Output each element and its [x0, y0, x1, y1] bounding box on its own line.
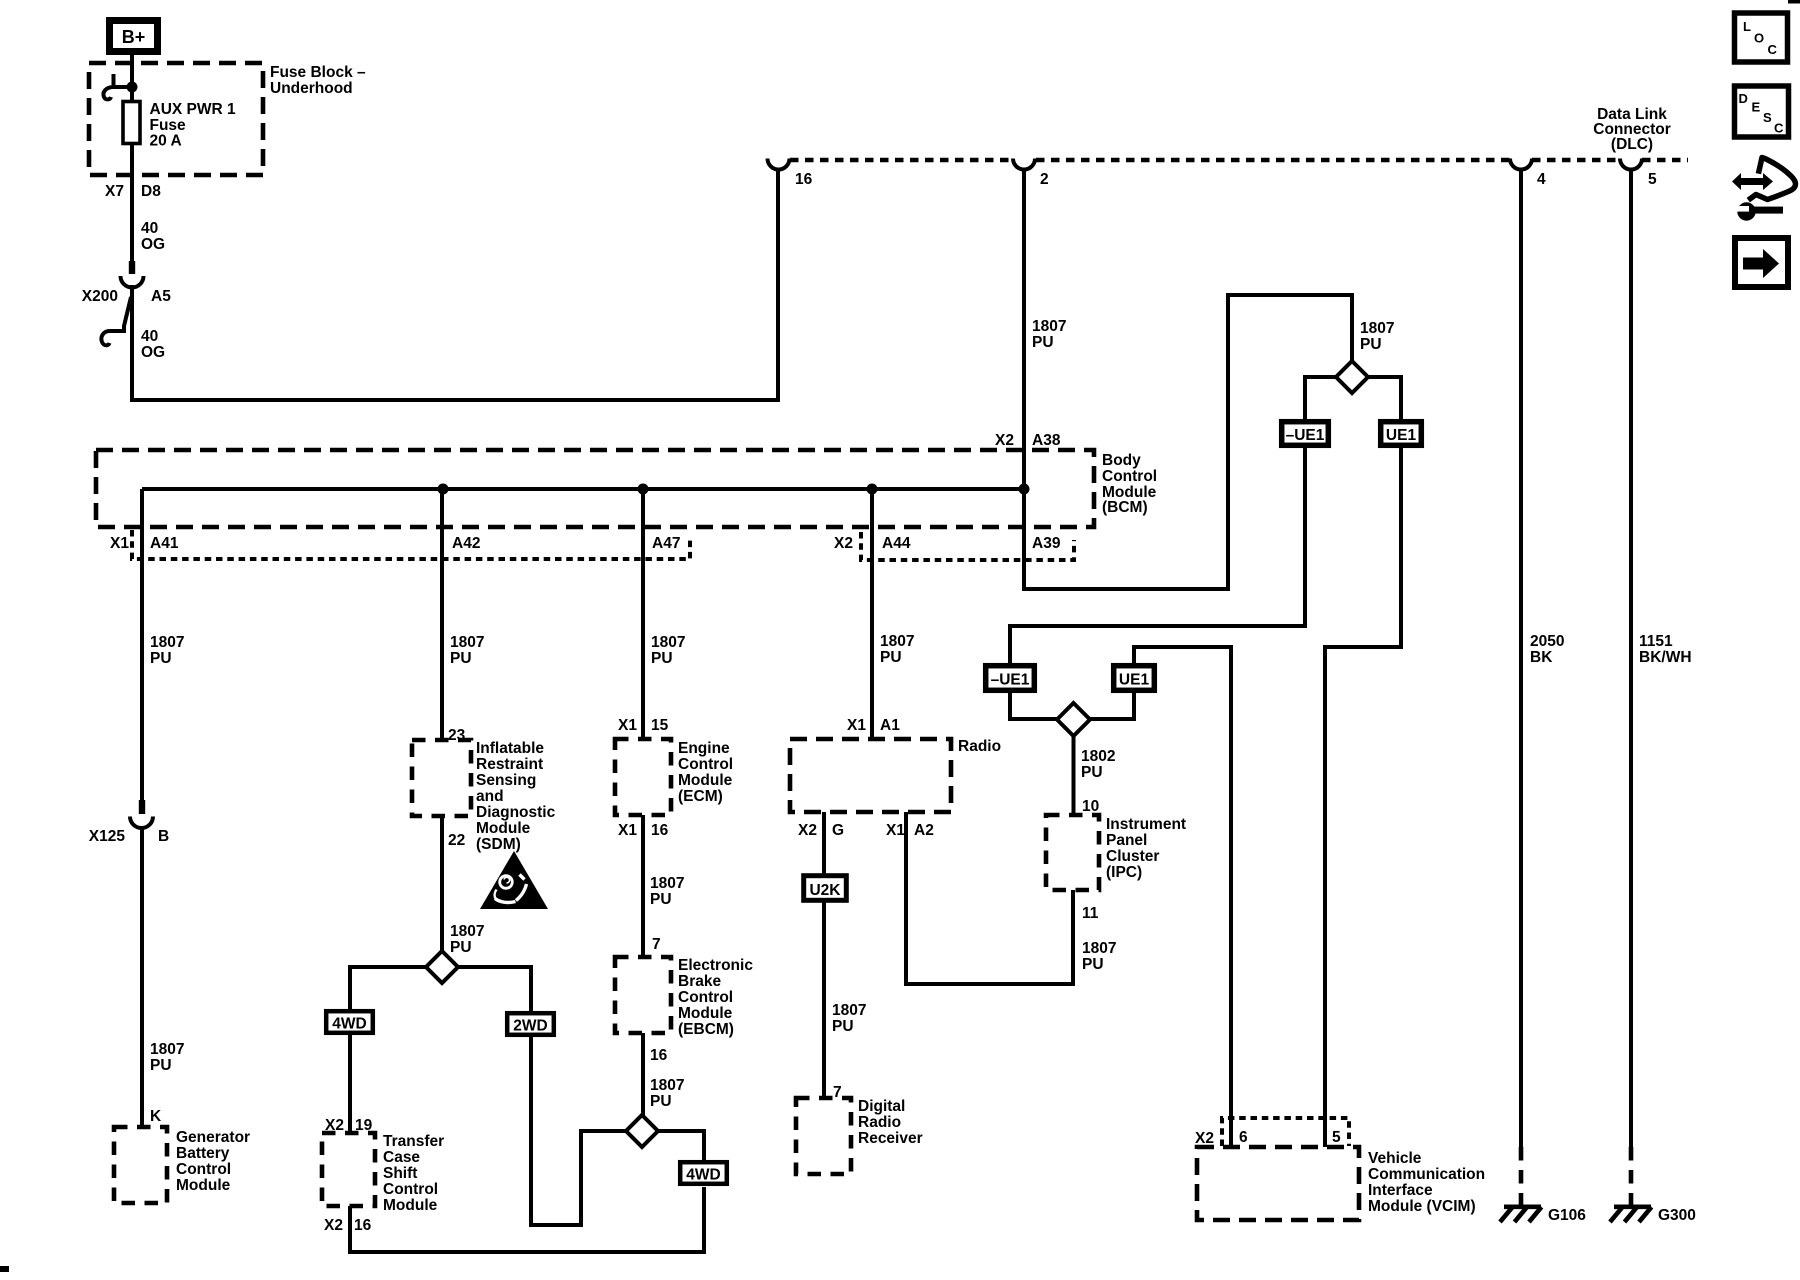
pin labels X1 A2 [886, 822, 934, 839]
svg-text:Instrument: Instrument [1106, 816, 1186, 833]
svg-text:16: 16 [650, 1047, 668, 1064]
svg-text:AUX PWR 1: AUX PWR 1 [150, 101, 237, 118]
svg-text:O: O [1754, 31, 1764, 46]
svg-text:X125: X125 [89, 828, 126, 845]
svg-text:and: and [476, 788, 504, 805]
label Data Link Connector (DLC) [1593, 106, 1671, 153]
svg-text:Transfer: Transfer [383, 1133, 444, 1150]
svg-text:X2: X2 [834, 535, 853, 552]
net tag UE1 lower [1114, 666, 1155, 691]
junction A47 [638, 484, 649, 495]
svg-text:20 A: 20 A [150, 133, 182, 150]
radio (dashed box) [790, 739, 951, 812]
splice diamond S4 [1057, 703, 1090, 736]
svg-text:Body: Body [1102, 452, 1141, 469]
svg-text:1807: 1807 [1032, 318, 1066, 335]
page corner mark top right [1788, 0, 1800, 4]
splice diamond S1 [426, 951, 458, 983]
svg-text:Shift: Shift [383, 1165, 417, 1182]
body control module BCM (dashed box) [96, 450, 1094, 527]
svg-text:OG: OG [141, 236, 165, 253]
svg-text:X1: X1 [886, 822, 905, 839]
svg-text:1807: 1807 [1360, 320, 1394, 337]
svg-text:Module: Module [678, 1005, 733, 1022]
4WD box 2 [680, 1162, 727, 1184]
svg-text:PU: PU [832, 1018, 854, 1035]
svg-text:Interface: Interface [1368, 1182, 1433, 1199]
svg-text:4: 4 [1537, 171, 1546, 188]
wire radio G to U2K [822, 812, 826, 875]
svg-text:1807: 1807 [150, 1041, 184, 1058]
wire label 40 OG [141, 220, 165, 253]
svg-text:G: G [832, 822, 844, 839]
svg-text:1807: 1807 [880, 633, 914, 650]
svg-text:Module: Module [678, 772, 733, 789]
pin labels X2 16 [324, 1217, 372, 1234]
svg-text:5: 5 [1648, 171, 1657, 188]
wire label 1807 PU [1082, 940, 1116, 973]
svg-text:Radio: Radio [958, 738, 1001, 755]
svg-text:PU: PU [1081, 764, 1103, 781]
svg-text:(DLC): (DLC) [1611, 136, 1653, 153]
svg-text:B+: B+ [122, 27, 146, 47]
wire label 1807 PU [450, 923, 484, 956]
svg-text:C: C [1768, 42, 1778, 57]
svg-text:A42: A42 [452, 535, 480, 552]
svg-text:G106: G106 [1548, 1207, 1586, 1224]
wire X125 to generator battery control module [140, 826, 144, 1127]
svg-text:1151: 1151 [1639, 633, 1673, 650]
wire label 1807 PU [450, 634, 484, 667]
svg-text:Inflatable: Inflatable [476, 740, 544, 757]
svg-text:UE1: UE1 [1386, 427, 1417, 444]
svg-text:Battery: Battery [176, 1145, 230, 1162]
wire BCM A41 down [140, 489, 144, 801]
DLC pin 5 cup [1620, 159, 1642, 170]
svg-text:1807: 1807 [450, 634, 484, 651]
U2K box [804, 876, 847, 901]
wire splice to 4WD [350, 967, 426, 1009]
svg-text:7: 7 [652, 936, 661, 953]
svg-text:PU: PU [650, 891, 672, 908]
label Instrument Panel Cluster (IPC) [1106, 816, 1186, 881]
wire label 40 OG [141, 328, 165, 361]
junction A44 [867, 484, 878, 495]
svg-text:Control: Control [678, 989, 733, 1006]
svg-text:15: 15 [651, 717, 669, 734]
svg-text:Radio: Radio [858, 1114, 901, 1131]
svg-text:16: 16 [795, 171, 813, 188]
svg-text:X1: X1 [618, 717, 637, 734]
2WD box [507, 1013, 554, 1035]
svg-text:1807: 1807 [651, 634, 685, 651]
svg-text:Module: Module [383, 1197, 438, 1214]
svg-text:A44: A44 [882, 535, 911, 552]
BCM X2 connector outline [861, 532, 1074, 560]
svg-text:Fuse: Fuse [150, 117, 187, 134]
BCM X1 connector outline [132, 530, 690, 559]
icon LOC [1735, 13, 1788, 62]
svg-text:Restraint: Restraint [476, 756, 543, 773]
digital radio receiver (dashed box) [796, 1098, 851, 1174]
battery positive B+ [110, 21, 158, 52]
svg-text:4WD: 4WD [332, 1016, 366, 1033]
label Engine Control Module (ECM) [678, 740, 733, 805]
wire radio A2 to IPC pin 11 [906, 812, 1073, 984]
svg-text:A2: A2 [914, 822, 934, 839]
label Body Control Module (BCM) [1102, 452, 1157, 516]
label Digital Radio Receiver [858, 1098, 923, 1147]
pin labels X2 6 5 [1195, 1129, 1341, 1147]
connector X125 B [89, 800, 169, 845]
svg-text:Case: Case [383, 1149, 420, 1166]
fuse block feed hook [103, 74, 130, 99]
svg-text:Cluster: Cluster [1106, 848, 1159, 865]
svg-text:2: 2 [1040, 171, 1049, 188]
wire UE1 to VCIM pin 5 [1325, 446, 1401, 1147]
pin labels X2 A44 [834, 535, 911, 552]
wire S4 to IPC pin 10 [1072, 736, 1076, 815]
splice diamond S3 [1336, 361, 1368, 393]
svg-text:PU: PU [150, 1057, 172, 1074]
svg-text:4WD: 4WD [686, 1167, 720, 1184]
svg-text:Digital: Digital [858, 1098, 905, 1115]
wire X200 to DLC pin 16 [132, 170, 778, 400]
svg-text:Fuse Block –: Fuse Block – [270, 64, 366, 81]
svg-text:A38: A38 [1032, 432, 1061, 449]
vehicle communication interface module VCIM (dashed box) [1197, 1147, 1359, 1220]
svg-text:PU: PU [1082, 956, 1104, 973]
pin labels X1 A41 [110, 535, 179, 552]
label Generator Battery Control Module [176, 1129, 250, 1194]
svg-text:A39: A39 [1032, 535, 1061, 552]
svg-text:6: 6 [1239, 1129, 1248, 1146]
svg-text:OG: OG [141, 344, 165, 361]
page corner mark bottom left [0, 1266, 9, 1272]
pin labels X1 15 [618, 717, 669, 734]
svg-text:G300: G300 [1658, 1207, 1696, 1224]
svg-text:A41: A41 [150, 535, 179, 552]
pin X7 D8 labels [105, 183, 161, 200]
svg-text:–UE1: –UE1 [991, 672, 1030, 689]
junction A42 [438, 484, 449, 495]
svg-text:Module (VCIM): Module (VCIM) [1368, 1198, 1476, 1215]
transfer case shift control module (dashed box) [322, 1133, 375, 1206]
icon schematic nav (arrow and wrench) [1732, 158, 1796, 221]
svg-text:PU: PU [651, 650, 673, 667]
svg-text:X1: X1 [110, 535, 129, 552]
wire splice to 2WD [458, 967, 531, 1011]
DLC dotted harness line [790, 158, 1012, 162]
wire -UE1 lower to splice S4 [1010, 691, 1057, 719]
svg-text:X200: X200 [82, 288, 118, 305]
svg-text:L: L [1743, 19, 1751, 34]
pin X2 A38 labels [995, 432, 1061, 449]
label Vehicle Communication Interface Module (VCIM) [1368, 1150, 1485, 1215]
svg-text:PU: PU [880, 649, 902, 666]
svg-text:X1: X1 [618, 822, 637, 839]
VCIM X2 connector outline [1222, 1118, 1349, 1146]
svg-text:Control: Control [1102, 468, 1157, 485]
wire DLC dotted segment 4 [1642, 158, 1688, 162]
wire DLC pin 4 down [1519, 169, 1523, 1147]
svg-text:PU: PU [650, 1093, 672, 1110]
wire label 1807 PU [650, 1077, 684, 1110]
fuse block underhood (dashed box) [89, 63, 263, 175]
wire 2WD to splice S2 [531, 1035, 626, 1225]
svg-text:(ECM): (ECM) [678, 788, 723, 805]
svg-text:X2: X2 [995, 432, 1014, 449]
svg-text:A5: A5 [151, 288, 171, 305]
net tag UE1 [1381, 422, 1422, 446]
svg-text:Module: Module [476, 820, 531, 837]
wire label 1807 PU [1032, 318, 1066, 351]
wire label 1807 PU [150, 1041, 184, 1074]
svg-text:A1: A1 [880, 717, 900, 734]
label Electronic Brake Control Module (EBCM) [678, 957, 753, 1038]
svg-text:PU: PU [1032, 334, 1054, 351]
wire BCM A39 loop to splice S3 [1024, 295, 1352, 589]
svg-text:Vehicle: Vehicle [1368, 1150, 1422, 1167]
svg-text:2050: 2050 [1530, 633, 1564, 650]
svg-text:16: 16 [651, 822, 669, 839]
wire SDM pin 22 to splice [440, 816, 444, 953]
ground G300 [1610, 1207, 1652, 1222]
svg-text:11: 11 [1082, 905, 1099, 922]
svg-text:E: E [1752, 100, 1761, 115]
pin labels X1 16 [618, 822, 669, 839]
generator battery control module (dashed box) [114, 1127, 167, 1203]
dashed ground lead G106 [1519, 1147, 1524, 1206]
inflatable restraint SDM (dashed box) [412, 740, 471, 816]
junction A38/A39 [1019, 484, 1030, 495]
label Inflatable Restraint Sensing and Diagnostic Module (SDM) [476, 740, 556, 853]
icon forward arrow [1735, 238, 1788, 287]
svg-text:16: 16 [354, 1217, 372, 1234]
wire label 1807 PU [880, 633, 914, 666]
svg-text:Brake: Brake [678, 973, 721, 990]
pin labels X2 G [798, 822, 844, 839]
svg-text:Panel: Panel [1106, 832, 1147, 849]
pin labels X1 A1 [847, 717, 900, 734]
net tag -UE1 lower [986, 666, 1035, 691]
DLC pin 4 cup [1510, 159, 1532, 170]
wire transfer case pin 16 to 4WD 2 [350, 1187, 704, 1252]
svg-text:Module: Module [176, 1177, 231, 1194]
wire ECM to EBCM [641, 815, 645, 957]
svg-text:(BCM): (BCM) [1102, 499, 1148, 516]
svg-text:(IPC): (IPC) [1106, 864, 1142, 881]
svg-text:Engine: Engine [678, 740, 730, 757]
svg-text:Diagnostic: Diagnostic [476, 804, 556, 821]
wire S3 to UE1 [1368, 377, 1401, 421]
wire label 1802 PU [1081, 748, 1115, 781]
connector X200 A5 [82, 261, 171, 305]
svg-text:Sensing: Sensing [476, 772, 536, 789]
svg-text:(SDM): (SDM) [476, 836, 521, 853]
svg-text:BK/WH: BK/WH [1639, 649, 1692, 666]
wire label 1807 PU [832, 1002, 866, 1035]
wire label 2050 BK [1530, 633, 1564, 666]
wire BCM A47 to ECM [641, 489, 645, 739]
icon DESC [1735, 86, 1789, 137]
SRS airbag warning triangle [480, 851, 548, 909]
X200 pigtail hook [101, 297, 131, 345]
wire BCM A42 to SDM [440, 489, 444, 740]
svg-text:Generator: Generator [176, 1129, 250, 1146]
wire 4WD to transfer case module [348, 1033, 352, 1133]
svg-text:X1: X1 [847, 717, 866, 734]
svg-text:Control: Control [176, 1161, 231, 1178]
dashed ground lead G300 [1629, 1147, 1634, 1206]
svg-text:UE1: UE1 [1119, 672, 1150, 689]
wire label 1151 BK/WH [1639, 633, 1692, 666]
DLC pin 16 cup [768, 159, 790, 170]
wire UE1 lower to splice S4 [1090, 691, 1134, 719]
svg-text:1807: 1807 [1082, 940, 1116, 957]
svg-text:40: 40 [141, 220, 158, 237]
svg-text:X2: X2 [798, 822, 817, 839]
wire DLC dotted segment 2 [1036, 158, 1510, 162]
wire DLC pin 2 to BCM A38 [1022, 169, 1026, 489]
svg-text:PU: PU [450, 939, 472, 956]
wire -UE1 to -UE1 lower [1010, 446, 1305, 665]
svg-text:Underhood: Underhood [270, 80, 353, 97]
svg-text:1807: 1807 [650, 1077, 684, 1094]
instrument panel cluster IPC (dashed box) [1046, 815, 1099, 890]
label Transfer Case Shift Control Module [383, 1133, 444, 1214]
wire DLC pin 5 down [1629, 169, 1633, 1147]
svg-text:K: K [150, 1108, 162, 1125]
svg-text:A47: A47 [652, 535, 680, 552]
svg-text:Control: Control [678, 756, 733, 773]
wire S3 to -UE1 [1305, 377, 1336, 421]
wire 4WD 2 to splice S2 [658, 1131, 704, 1164]
DLC pin 2 cup [1013, 159, 1035, 170]
svg-text:X2: X2 [1195, 1130, 1214, 1147]
fuse AUX PWR 1 20A [123, 101, 236, 150]
svg-text:40: 40 [141, 328, 158, 345]
svg-text:BK: BK [1530, 649, 1553, 666]
svg-text:Receiver: Receiver [858, 1130, 923, 1147]
svg-text:B: B [158, 828, 169, 845]
svg-text:Communication: Communication [1368, 1166, 1485, 1183]
BCM internal bus wire [142, 487, 1024, 491]
4WD box [326, 1011, 373, 1033]
svg-text:1807: 1807 [150, 634, 184, 651]
wire label 1807 PU [650, 875, 684, 908]
engine control module ECM (dashed box) [615, 739, 671, 815]
svg-text:10: 10 [1082, 798, 1099, 815]
wire BCM A44 to radio [870, 489, 874, 739]
splice diamond S2 [626, 1115, 658, 1147]
wire EBCM to splice S2 [641, 1033, 645, 1117]
wire U2K to digital radio receiver [822, 901, 826, 1098]
svg-text:1807: 1807 [832, 1002, 866, 1019]
wire label 1807 PU [150, 634, 184, 667]
svg-text:Control: Control [383, 1181, 438, 1198]
net tag -UE1 [1282, 422, 1329, 446]
svg-text:1807: 1807 [650, 875, 684, 892]
svg-text:(EBCM): (EBCM) [678, 1021, 734, 1038]
svg-text:Electronic: Electronic [678, 957, 753, 974]
svg-text:–UE1: –UE1 [1286, 427, 1325, 444]
svg-text:1807: 1807 [450, 923, 484, 940]
svg-text:C: C [1774, 121, 1784, 136]
svg-text:D8: D8 [141, 183, 161, 200]
junction in fuse block [127, 82, 138, 93]
wire DLC dotted segment 3 [1532, 158, 1620, 162]
svg-text:D: D [1739, 91, 1748, 106]
svg-text:2WD: 2WD [513, 1018, 547, 1035]
wire label 1807 PU [1360, 320, 1394, 353]
wire B+ to fuse [130, 55, 134, 262]
svg-text:PU: PU [1360, 336, 1382, 353]
ground G106 [1500, 1207, 1542, 1222]
svg-text:22: 22 [448, 832, 465, 849]
electronic brake control module EBCM (dashed box) [615, 957, 671, 1033]
svg-text:7: 7 [833, 1084, 842, 1101]
svg-text:X7: X7 [105, 183, 124, 200]
svg-text:1802: 1802 [1081, 748, 1115, 765]
svg-text:PU: PU [150, 650, 172, 667]
pin labels X2 19 [325, 1117, 373, 1134]
svg-text:U2K: U2K [809, 882, 841, 899]
label Fuse Block Underhood [270, 64, 366, 97]
wire UE1 lower to VCIM pin 6 [1134, 647, 1231, 1147]
wire below X200 [130, 285, 134, 402]
svg-text:S: S [1763, 110, 1772, 125]
svg-text:X2: X2 [324, 1217, 343, 1234]
wire label 1807 PU [651, 634, 685, 667]
svg-text:5: 5 [1332, 1129, 1341, 1146]
svg-text:PU: PU [450, 650, 472, 667]
